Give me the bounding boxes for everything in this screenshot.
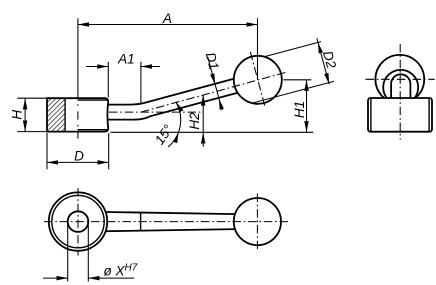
svg-text:H2: H2 (187, 112, 202, 130)
svg-text:D: D (74, 148, 84, 163)
svg-text:A1: A1 (117, 52, 135, 67)
svg-text:ø XH7: ø XH7 (104, 263, 138, 279)
svg-text:A: A (162, 11, 172, 26)
svg-text:H: H (10, 110, 25, 120)
svg-text:D1: D1 (203, 51, 222, 72)
svg-text:H1: H1 (292, 101, 307, 118)
svg-text:D2: D2 (320, 49, 339, 70)
